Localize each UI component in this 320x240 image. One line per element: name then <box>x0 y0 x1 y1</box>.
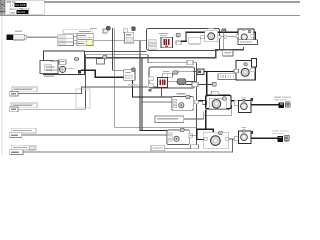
gray dot B2 <box>212 82 216 86</box>
wire top horizontal dark <box>0 0 300 3</box>
box A label <box>159 33 168 34</box>
AI sample node <box>125 32 134 43</box>
cluster G text rows <box>46 66 55 67</box>
thick wire node R to frame C <box>198 100 206 101</box>
svg-text:Last: Last <box>9 10 15 14</box>
thin wires below frame C <box>202 112 205 119</box>
property node <box>77 34 94 46</box>
dot node M <box>132 68 136 72</box>
wire E4 <box>23 151 233 154</box>
cluster G dark box <box>78 70 81 74</box>
label box C <box>155 116 184 122</box>
cluster G inner label box <box>45 65 52 71</box>
label box D <box>151 146 165 151</box>
wire AI out to box A <box>134 40 147 43</box>
wire label box C <box>184 118 204 121</box>
DAQmx node A (red glyph) <box>161 37 172 48</box>
gauge C1 circle <box>212 100 221 109</box>
black icon C <box>279 102 285 108</box>
dot cluster D1 <box>218 131 222 134</box>
left edge icon strip <box>0 0 5 14</box>
label above D2 <box>242 127 247 128</box>
cluster G wires <box>50 61 59 64</box>
label AI volt <box>90 28 97 29</box>
left terminals box B <box>148 77 153 81</box>
wire property node to AI box <box>94 39 124 42</box>
DAQmx node B red <box>158 78 168 88</box>
wire second horizontal gray <box>0 14 300 17</box>
gauge cluster 2 thick frame <box>238 29 254 40</box>
rounded box B <box>149 67 195 88</box>
small constant box <box>223 50 233 56</box>
small box D2nd <box>191 145 199 149</box>
node R row D <box>167 130 189 145</box>
wires unbundle to property node <box>74 35 78 38</box>
source E3 <box>11 128 36 133</box>
small node N2 <box>197 69 204 74</box>
wire E1 <box>18 92 82 95</box>
node M <box>124 70 135 80</box>
thick frame row C <box>206 95 231 108</box>
thin wire cluster1 to cluster2 <box>221 35 236 38</box>
thick branch down to structure C <box>206 71 207 97</box>
cluster 2 side terminals <box>236 35 238 38</box>
source E2 <box>11 103 37 108</box>
cluster G small node <box>59 60 66 65</box>
dark oval B <box>177 79 186 85</box>
node M output down <box>132 80 133 96</box>
fan icon D <box>174 136 179 141</box>
label box above property node <box>63 30 93 34</box>
thick wire C out <box>251 104 279 106</box>
dot C2 <box>242 99 245 102</box>
gauge D1 circle <box>211 136 221 146</box>
GPS source body <box>13 35 24 40</box>
fan icon C <box>179 103 184 108</box>
box B2b <box>192 82 198 86</box>
faint left vertical line <box>1 16 4 155</box>
label box B ticks <box>218 74 238 80</box>
thick gray long wire from cluster G <box>85 57 217 59</box>
thick feed row D node <box>140 130 167 131</box>
wire E1 branch down to row D <box>114 126 196 129</box>
dark square right of D2 <box>250 131 253 134</box>
dot cluster B <box>244 63 248 66</box>
D2 left terminal <box>234 136 239 141</box>
C2 left terminal <box>234 101 239 106</box>
terminals D1 <box>204 137 207 140</box>
small box right of node A <box>176 41 181 44</box>
wire dot to N2 <box>178 70 193 73</box>
thin wire into row C node <box>143 101 172 104</box>
cluster C2 compact <box>239 100 251 112</box>
wire E2 riser <box>84 54 87 109</box>
label GPS <box>15 31 22 32</box>
source E4 <box>11 145 36 150</box>
dot right of cluster 1 + stem <box>222 29 226 33</box>
node R row C <box>172 97 194 111</box>
cluster D1 <box>204 132 229 148</box>
big cluster G frame <box>44 51 85 75</box>
wire box B right down <box>195 62 198 148</box>
label text D top right <box>272 130 279 131</box>
row D thick top <box>196 128 214 130</box>
thick gray wire from GPS <box>27 36 58 38</box>
source E1 <box>12 87 37 92</box>
wire E3 <box>22 134 167 137</box>
wire node B to oval <box>168 80 178 83</box>
gauge 2 circle <box>241 34 247 40</box>
gray icon C <box>285 102 290 108</box>
wire oval out <box>186 80 196 83</box>
two-cell node B <box>162 74 172 78</box>
label ALT <box>163 71 169 72</box>
GPS source black block <box>7 35 14 40</box>
gauge cluster 1 <box>201 31 221 42</box>
tiny label above E1 wire <box>128 84 138 85</box>
gauge cluster B thick frame <box>236 61 255 81</box>
gauge B circle <box>241 68 249 76</box>
wire label box D <box>165 147 191 150</box>
wire G top to box A <box>85 50 147 53</box>
svg-text:No Fix: No Fix <box>17 10 26 14</box>
thick vertical 2 down to row D <box>142 58 143 132</box>
cluster G dot <box>74 57 78 61</box>
thick exit frame C <box>231 100 235 101</box>
dot in cluster 2 <box>248 30 251 33</box>
rounded box A <box>147 28 220 50</box>
node with dot right of cluster G <box>97 59 105 64</box>
top-left info panel <box>6 0 45 15</box>
gauge C2 circle <box>241 103 248 110</box>
thick vertical frame C down to row D <box>205 109 206 129</box>
thick black wire row A <box>181 32 256 45</box>
thin wire R' to rail <box>190 134 197 137</box>
gray dot above oval <box>173 71 178 75</box>
vertical wire pair <box>111 28 114 71</box>
thick wire D out <box>251 137 278 139</box>
thick wire row B <box>204 71 234 72</box>
small light box above frame C <box>212 91 219 94</box>
right terminal cluster B <box>251 68 255 72</box>
wire B lower <box>186 84 213 85</box>
GPS source cap <box>24 35 27 39</box>
cluster G gauge <box>60 66 66 72</box>
gray icon D <box>284 135 289 141</box>
cluster D2 compact <box>239 131 251 143</box>
left terminal cluster B <box>234 69 239 73</box>
gauge D2 circle <box>241 134 248 141</box>
label under cluster G <box>44 76 54 77</box>
unbundle node <box>58 35 74 46</box>
cluster G sub frame <box>40 61 58 74</box>
dot right of node A <box>176 33 180 37</box>
dot D2 <box>242 130 245 133</box>
label above C2 <box>242 97 247 98</box>
thick vertical from AI wire down to row D <box>140 41 141 132</box>
small white box right of cluster1 <box>224 36 227 39</box>
cluster C1 <box>209 98 226 108</box>
faint rectangle <box>76 89 90 108</box>
label text C top right <box>274 97 281 98</box>
white box on wire <box>189 38 200 44</box>
black icon D <box>278 136 284 142</box>
dot cluster C1 <box>223 97 227 100</box>
gauge 1 circle <box>208 33 215 40</box>
thick wire from cluster G <box>81 70 124 78</box>
small box with dark dot (sensor 1) <box>103 29 107 33</box>
label box under cluster 2 <box>238 40 257 45</box>
wire into node M <box>112 69 124 72</box>
dark square right of C2 <box>250 98 253 101</box>
wire E2 horizontal <box>18 108 86 111</box>
wire D1 to D2 <box>229 138 235 141</box>
box A left terminals <box>148 40 156 42</box>
bracket box (sensor 2) <box>123 29 127 33</box>
thick feed row C node <box>132 97 173 98</box>
